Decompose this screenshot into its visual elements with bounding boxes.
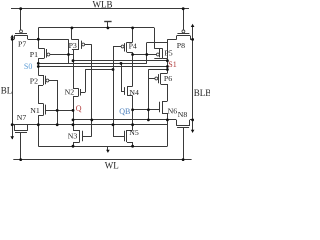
svg-text:S1: S1 <box>168 60 176 69</box>
svg-text:N7: N7 <box>17 113 27 122</box>
svg-text:QB: QB <box>119 107 130 116</box>
svg-text:N2: N2 <box>65 87 75 96</box>
svg-text:P8: P8 <box>177 41 185 50</box>
svg-text:N5: N5 <box>129 128 139 137</box>
svg-text:BL: BL <box>1 85 13 95</box>
svg-text:N3: N3 <box>68 132 78 141</box>
svg-text:P5: P5 <box>164 49 172 58</box>
svg-text:N8: N8 <box>178 110 188 119</box>
svg-text:P1: P1 <box>30 50 38 59</box>
svg-text:Q: Q <box>76 104 82 113</box>
svg-text:P3: P3 <box>69 41 77 50</box>
svg-text:N6: N6 <box>168 106 178 115</box>
svg-text:BLB: BLB <box>194 88 210 98</box>
svg-text:N1: N1 <box>30 106 40 115</box>
svg-text:P4: P4 <box>129 41 137 50</box>
svg-text:S0: S0 <box>24 62 32 71</box>
svg-text:WLB: WLB <box>93 0 113 10</box>
svg-text:WL: WL <box>105 161 119 171</box>
svg-text:P2: P2 <box>30 77 38 86</box>
svg-text:P6: P6 <box>164 74 172 83</box>
svg-text:N4: N4 <box>129 88 139 97</box>
svg-text:P7: P7 <box>18 39 26 48</box>
